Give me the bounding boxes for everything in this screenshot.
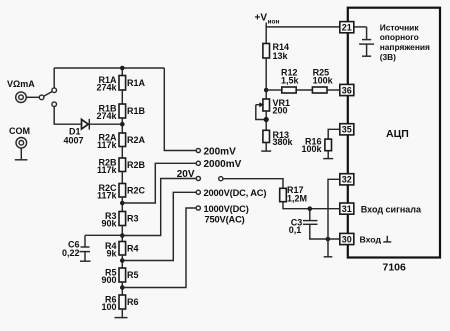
svg-text:100: 100	[101, 302, 116, 312]
svg-text:2000V(DC, AC): 2000V(DC, AC)	[204, 188, 267, 198]
svg-text:R1B: R1B	[127, 106, 146, 116]
capacitor C6	[62, 235, 122, 258]
svg-text:опорного: опорного	[380, 32, 419, 42]
wire VR1 wiper to bottom	[256, 105, 266, 120]
diode D1	[64, 119, 90, 145]
capacitor C3	[289, 209, 318, 236]
resistor R4	[105, 241, 139, 259]
resistor R2A	[97, 132, 146, 150]
svg-text:36: 36	[342, 85, 352, 95]
svg-text:100k: 100k	[313, 75, 334, 85]
resistor R6	[101, 294, 138, 312]
svg-text:R1A: R1A	[127, 78, 146, 88]
svg-text:Вход: Вход	[360, 234, 382, 244]
svg-text:VΩmA: VΩmA	[7, 79, 35, 89]
label reference source	[380, 22, 430, 62]
wire terminal to switch arm	[26, 96, 39, 98]
pin 35	[340, 124, 354, 135]
node tap 1000V	[196, 204, 249, 225]
resistor R25	[312, 67, 333, 93]
wire tap 1000V	[122, 208, 196, 288]
resistor R17	[280, 185, 307, 204]
wire R14 to node	[265, 58, 267, 100]
pin 30	[340, 233, 354, 244]
svg-text:2000mV: 2000mV	[204, 159, 242, 170]
svg-text:Вход сигнала: Вход сигнала	[361, 204, 422, 214]
node below R1B	[120, 118, 125, 133]
terminal COM	[9, 126, 30, 148]
svg-text:117k: 117k	[97, 191, 118, 201]
svg-text:100k: 100k	[301, 144, 322, 154]
ground under R13	[261, 143, 271, 152]
wire node to R12	[266, 89, 282, 91]
node R14/R12/VR1	[264, 88, 269, 93]
node ground junction	[326, 237, 331, 242]
wire R17 to pin 31	[283, 202, 340, 209]
resistor R1B	[96, 90, 145, 121]
pin 36	[340, 84, 354, 95]
svg-text:АЦП: АЦП	[386, 128, 409, 140]
wire tap 20V	[122, 179, 196, 236]
wire 20V link to R17	[223, 179, 283, 189]
ground under R16	[323, 151, 333, 159]
svg-text:4007: 4007	[64, 135, 84, 145]
pin 31	[340, 203, 354, 214]
svg-text:274k: 274k	[96, 83, 117, 93]
svg-text:35: 35	[342, 125, 352, 135]
potentiometer VR1	[256, 98, 290, 116]
wire tap 2000V	[122, 192, 196, 260]
resistor R2B	[97, 147, 146, 176]
resistor R2C	[97, 172, 146, 201]
resistor R16	[301, 136, 331, 154]
resistor R12	[281, 67, 300, 93]
node VR1 bottom	[264, 111, 269, 130]
resistor R3	[101, 211, 138, 229]
wire top rail	[54, 67, 164, 69]
pin 32	[340, 174, 354, 185]
svg-text:R2C: R2C	[127, 185, 146, 195]
svg-text:R4: R4	[127, 243, 139, 253]
ground under C6	[80, 252, 91, 262]
resistor R5	[101, 267, 138, 285]
ground under pin32 rail	[324, 256, 333, 258]
node below R3	[120, 226, 125, 242]
node C3 top junction	[308, 206, 313, 211]
svg-text:R2A: R2A	[127, 135, 146, 145]
resistor R1A	[96, 68, 145, 93]
wire tap 200mV	[164, 68, 196, 151]
wire R12 to R25	[296, 89, 312, 91]
svg-text:32: 32	[342, 175, 352, 185]
wire D1 cathode to chain	[90, 123, 123, 125]
svg-text:напряжения: напряжения	[380, 42, 430, 52]
svg-text:1,2M: 1,2M	[287, 194, 307, 204]
svg-text:900: 900	[101, 275, 116, 285]
svg-text:1,5k: 1,5k	[281, 75, 300, 85]
svg-text:1000V(DC): 1000V(DC)	[204, 204, 249, 214]
node tap 20V	[177, 169, 223, 181]
svg-text:31: 31	[342, 204, 352, 214]
svg-text:30: 30	[342, 234, 352, 244]
wire +V rail to pin 21	[266, 23, 340, 44]
wire pin 35 to R16	[328, 129, 340, 139]
label Вход ground	[360, 234, 392, 244]
node tap 2000V	[196, 188, 266, 198]
ground chain bottom	[115, 309, 128, 318]
svg-text:117k: 117k	[97, 140, 118, 150]
wire switch bottom contact down to D1	[54, 107, 81, 125]
node below R4	[120, 255, 125, 268]
label +Vион	[255, 13, 280, 26]
wire R25 to pin 36	[327, 89, 340, 91]
svg-text:7106: 7106	[383, 261, 407, 273]
svg-text:R5: R5	[127, 270, 139, 280]
wire switch top contact to top rail	[53, 68, 55, 88]
svg-text:R3: R3	[127, 214, 139, 224]
node below R2C	[120, 197, 125, 212]
node tap 2000mV	[196, 159, 241, 170]
svg-text:90k: 90k	[101, 219, 117, 229]
wire tap 2000mV	[122, 163, 196, 203]
node top junction	[120, 66, 125, 71]
svg-text:R6: R6	[127, 297, 139, 307]
wire C3 bottom to pin 30	[310, 224, 340, 239]
svg-text:21: 21	[342, 23, 352, 33]
node below R5	[120, 282, 125, 295]
svg-text:9k: 9k	[106, 249, 117, 259]
wire pin 32 to ground rail	[328, 179, 340, 256]
svg-text:COM: COM	[9, 126, 30, 136]
svg-text:274k: 274k	[96, 111, 117, 121]
svg-text:ион: ион	[268, 19, 280, 26]
svg-text:0,1: 0,1	[289, 225, 302, 235]
svg-text:117k: 117k	[97, 165, 118, 175]
svg-text:+V: +V	[255, 13, 268, 24]
pin 21	[340, 22, 354, 33]
ground under COM	[15, 148, 28, 160]
battery 3V reference source	[354, 27, 374, 56]
svg-text:200: 200	[273, 106, 288, 116]
svg-text:200mV: 200mV	[204, 146, 237, 157]
node tap 200mV	[196, 146, 236, 157]
op chip АЦП 7106	[348, 8, 440, 274]
svg-text:R2B: R2B	[127, 160, 146, 170]
svg-text:20V: 20V	[177, 169, 195, 180]
svg-text:(3В): (3В)	[380, 52, 396, 62]
svg-text:0,22: 0,22	[62, 248, 80, 258]
switch SA1	[39, 88, 56, 107]
svg-text:380k: 380k	[273, 137, 294, 147]
svg-text:13k: 13k	[273, 51, 289, 61]
svg-text:750V(AC): 750V(AC)	[205, 214, 245, 224]
svg-text:Источник: Источник	[380, 22, 420, 32]
terminal VΩmA	[7, 79, 35, 103]
resistor R14	[263, 42, 289, 61]
resistor R13	[263, 130, 294, 147]
